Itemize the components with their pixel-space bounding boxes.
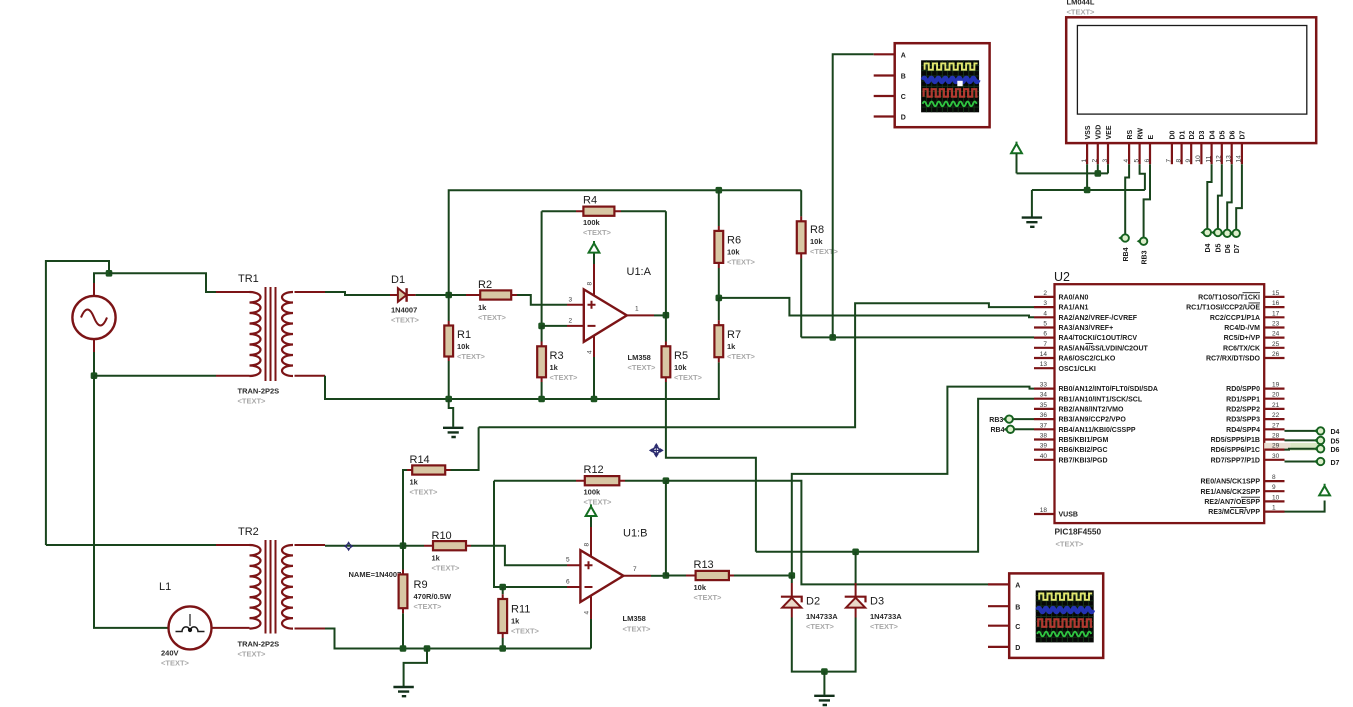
svg-text:TR1: TR1: [238, 273, 259, 285]
svg-text:D2: D2: [1189, 130, 1196, 139]
svg-text:10k: 10k: [694, 583, 707, 592]
wire: output node to scope2 A: [666, 481, 988, 585]
wire: R4 left feedback column to pin2: [541, 211, 543, 326]
svg-text:38: 38: [1040, 433, 1048, 440]
svg-text:RS: RS: [1127, 129, 1134, 139]
svg-text:34: 34: [1040, 392, 1048, 399]
svg-text:C: C: [901, 94, 906, 101]
svg-text:14: 14: [1236, 155, 1243, 163]
resistor R9 470R/0.5W: [399, 546, 452, 649]
wire: LCD D4 to terminal: [1207, 164, 1211, 229]
svg-text:7: 7: [633, 566, 637, 573]
node: junction AC-bottom: [91, 372, 98, 379]
svg-text:R14: R14: [410, 454, 430, 466]
svg-text:35: 35: [1040, 402, 1048, 409]
node: R6 top tee on rail: [716, 187, 723, 194]
svg-text:100k: 100k: [583, 218, 601, 227]
svg-text:RW: RW: [1137, 128, 1144, 140]
origin marker on wire: [344, 541, 354, 551]
svg-text:<TEXT>: <TEXT>: [161, 659, 190, 668]
wire: RB0 net from R13/D2 node: [792, 387, 1034, 576]
wire: divider mid to PIC RA2: [719, 298, 1034, 317]
svg-text:RA0/AN0: RA0/AN0: [1059, 295, 1089, 302]
svg-text:D3: D3: [870, 596, 884, 608]
wire: R5 bottom run to RB1 net: [666, 382, 756, 552]
svg-text:<TEXT>: <TEXT>: [457, 352, 486, 361]
svg-text:RD0/SPP0: RD0/SPP0: [1226, 386, 1260, 393]
svg-text:D5: D5: [1216, 243, 1223, 252]
svg-text:26: 26: [1272, 351, 1280, 358]
wire: TR2 secondary top to node: [325, 545, 403, 547]
svg-text:19: 19: [1272, 382, 1280, 389]
svg-text:2: 2: [1043, 290, 1047, 297]
svg-text:R5: R5: [674, 350, 688, 362]
svg-text:11: 11: [1205, 155, 1212, 162]
ground under zeners: [814, 672, 834, 705]
svg-text:RD1/SPP1: RD1/SPP1: [1226, 396, 1260, 403]
ground under section B: [393, 649, 427, 697]
svg-text:RE1/AN6/CK2SPP: RE1/AN6/CK2SPP: [1200, 489, 1260, 496]
svg-text:R8: R8: [810, 224, 824, 236]
svg-text:D6: D6: [1225, 244, 1232, 253]
svg-text:10k: 10k: [457, 342, 470, 351]
wire: LCD E to terminal: [1144, 164, 1150, 237]
node: feedback/R3 junction: [538, 323, 545, 330]
svg-text:1k: 1k: [727, 342, 736, 351]
wire: RA1 long wire to lower section: [479, 303, 1034, 427]
svg-text:TRAN-2P2S: TRAN-2P2S: [238, 387, 280, 396]
svg-text:D: D: [901, 115, 906, 122]
svg-text:RC6/TX/CK: RC6/TX/CK: [1223, 345, 1260, 352]
wire: lamp to TR2 primary bottom: [212, 627, 250, 629]
svg-text:RB6/KBI2/PGC: RB6/KBI2/PGC: [1059, 447, 1108, 454]
svg-text:RC1/T1OSI/CCP2/UOE: RC1/T1OSI/CCP2/UOE: [1186, 305, 1260, 312]
svg-text:R4: R4: [583, 195, 597, 207]
svg-text:25: 25: [1272, 341, 1280, 348]
svg-text:<TEXT>: <TEXT>: [583, 228, 612, 237]
power arrow above U1:B: [586, 504, 597, 527]
wire: LCD RS to terminal: [1125, 164, 1129, 234]
svg-text:A: A: [1015, 583, 1020, 590]
wire: U1:A output to node: [654, 314, 666, 316]
svg-text:TR2: TR2: [238, 526, 259, 538]
wire: left rail to TR2 primary top: [46, 544, 216, 546]
wire: LCD ground rail: [1032, 189, 1145, 191]
wire: LCD D6 to terminal: [1227, 164, 1232, 229]
svg-text:D: D: [1015, 645, 1020, 652]
svg-text:D3: D3: [1199, 130, 1206, 139]
power arrow at MCLR: [1319, 484, 1330, 496]
node: zener ground junction: [821, 668, 828, 675]
wire: R12 left feedback to pin6: [494, 481, 567, 587]
svg-text:4: 4: [1123, 159, 1130, 163]
ground under section A: [443, 399, 463, 437]
terminal D7 at PIC: [1314, 458, 1340, 467]
svg-text:RA6/OSC2/CLKO: RA6/OSC2/CLKO: [1059, 356, 1116, 363]
svg-text:10k: 10k: [727, 248, 740, 257]
svg-text:<TEXT>: <TEXT>: [410, 488, 439, 497]
svg-text:<TEXT>: <TEXT>: [623, 625, 652, 634]
svg-text:<TEXT>: <TEXT>: [414, 602, 443, 611]
oscilloscope 2: [988, 573, 1103, 658]
svg-text:40: 40: [1040, 453, 1048, 460]
svg-text:U1:A: U1:A: [627, 266, 652, 278]
svg-text:10: 10: [1272, 494, 1280, 501]
node: VDD on power rail: [1095, 170, 1102, 177]
svg-text:39: 39: [1040, 443, 1048, 450]
svg-text:RB3: RB3: [1141, 250, 1148, 264]
svg-text:RC7/RX/DT/SDO: RC7/RX/DT/SDO: [1206, 356, 1261, 363]
node: pin4 on rail: [591, 396, 598, 403]
svg-text:4: 4: [583, 611, 590, 615]
transformer TR2: [216, 526, 325, 659]
svg-text:RD3/SPP3: RD3/SPP3: [1226, 417, 1260, 424]
ground for LCD: [1022, 190, 1042, 227]
svg-text:<TEXT>: <TEXT>: [432, 564, 461, 573]
svg-text:D4: D4: [1209, 130, 1216, 139]
wire: node to op-amp pin2: [542, 325, 567, 327]
svg-text:LM358: LM358: [623, 614, 646, 623]
svg-text:RC2/CCP1/P1A: RC2/CCP1/P1A: [1210, 315, 1260, 322]
svg-text:5: 5: [1043, 321, 1047, 328]
oscilloscope 1: [874, 43, 990, 127]
op-amp U1:B LM358: [566, 527, 651, 634]
resistor R5 10k: [662, 315, 703, 382]
LCD display LM044L: [1066, 0, 1316, 164]
wire: AC source bottom to junction: [93, 352, 95, 376]
zener D3 1N4733A: [845, 552, 903, 631]
wire: junction to TR1 primary bottom: [94, 375, 216, 377]
wire: MCLR pull-up: [1285, 501, 1325, 512]
svg-text:R2: R2: [478, 279, 492, 291]
terminal RB4 at PIC: [990, 426, 1034, 435]
svg-text:D4: D4: [1331, 429, 1340, 436]
node: D1/R1/R2 junction: [445, 292, 452, 299]
svg-text:14: 14: [1040, 351, 1048, 358]
svg-text:R7: R7: [727, 329, 741, 341]
node: TR2/R14/R10/R9 junction: [400, 542, 407, 549]
resistor R1 10k: [444, 295, 485, 399]
svg-text:RB7/KBI3/PGD: RB7/KBI3/PGD: [1059, 457, 1108, 464]
svg-text:4: 4: [1043, 310, 1047, 317]
svg-text:8: 8: [1175, 159, 1182, 163]
svg-text:37: 37: [1040, 422, 1048, 429]
svg-text:RD4/SPP4: RD4/SPP4: [1226, 427, 1260, 434]
power arrow LCD VDD: [1011, 142, 1022, 174]
svg-text:D0: D0: [1170, 130, 1177, 139]
svg-text:27: 27: [1272, 422, 1280, 429]
svg-text:<TEXT>: <TEXT>: [584, 498, 613, 507]
svg-text:18: 18: [1040, 507, 1048, 514]
svg-text:D7: D7: [1331, 460, 1340, 467]
svg-text:17: 17: [1272, 310, 1280, 317]
svg-text:R1: R1: [457, 329, 471, 341]
terminal RB3 at PIC: [989, 415, 1034, 424]
svg-text:29: 29: [1272, 443, 1280, 450]
node: output/R4/R5 junction: [663, 312, 670, 319]
resistor R6 10k: [714, 190, 755, 298]
svg-text:D7: D7: [1240, 130, 1247, 139]
terminal D7 (LCD): [1229, 230, 1241, 254]
svg-text:<TEXT>: <TEXT>: [694, 593, 723, 602]
svg-text:23: 23: [1272, 321, 1280, 328]
node: ground stem on rail: [424, 645, 431, 652]
AC source V1: [72, 283, 115, 352]
svg-text:VEE: VEE: [1106, 125, 1113, 139]
svg-text:RB4: RB4: [1123, 247, 1130, 261]
svg-text:6: 6: [566, 579, 570, 586]
svg-text:<TEXT>: <TEXT>: [674, 373, 703, 382]
svg-text:30: 30: [1272, 453, 1280, 460]
svg-text:RB4/AN11/KBI0/CSSPP: RB4/AN11/KBI0/CSSPP: [1059, 427, 1136, 434]
svg-text:<TEXT>: <TEXT>: [870, 622, 899, 631]
svg-text:RA4/T0CKI/C1OUT/RCV: RA4/T0CKI/C1OUT/RCV: [1059, 335, 1138, 342]
svg-text:<TEXT>: <TEXT>: [727, 352, 756, 361]
svg-text:LM358: LM358: [628, 353, 651, 362]
svg-text:RC4/D-/VM: RC4/D-/VM: [1224, 325, 1260, 332]
svg-text:6: 6: [1043, 331, 1047, 338]
svg-text:NAME=1N4007: NAME=1N4007: [349, 570, 402, 579]
svg-text:D4: D4: [1205, 243, 1212, 252]
svg-text:VUSB: VUSB: [1059, 512, 1078, 519]
wire: LCD RW to ground rail: [1140, 164, 1145, 190]
svg-text:<TEXT>: <TEXT>: [511, 627, 540, 636]
svg-text:RB2/AN8/INT2/VMO: RB2/AN8/INT2/VMO: [1059, 407, 1125, 414]
svg-text:D1: D1: [391, 274, 405, 286]
svg-text:RE2/AN7/OESPP: RE2/AN7/OESPP: [1204, 499, 1260, 506]
svg-text:B: B: [901, 74, 906, 81]
svg-text:22: 22: [1272, 412, 1280, 419]
wire: scope1 input A: [833, 54, 874, 337]
wire: RD6 to terminal: [1285, 448, 1317, 451]
svg-text:7: 7: [1043, 341, 1047, 348]
node: R9 bottom on rail: [400, 645, 407, 652]
terminal D6 (LCD): [1220, 230, 1232, 254]
resistor R2 1k: [449, 279, 567, 322]
diode D1 1N4007: [390, 274, 420, 325]
svg-text:12: 12: [1216, 155, 1223, 163]
wire: AC bottom rail down to lamp: [94, 376, 168, 628]
svg-text:8: 8: [1272, 474, 1276, 481]
power arrow above U1:A: [589, 241, 600, 264]
svg-text:D2: D2: [806, 596, 820, 608]
svg-text:U2: U2: [1054, 270, 1070, 284]
svg-text:1N4733A: 1N4733A: [806, 612, 838, 621]
svg-text:<TEXT>: <TEXT>: [806, 622, 835, 631]
svg-text:2: 2: [569, 318, 573, 325]
svg-text:RD7/SPP7/P1D: RD7/SPP7/P1D: [1211, 457, 1260, 464]
svg-text:36: 36: [1040, 412, 1048, 419]
svg-text:21: 21: [1272, 402, 1280, 409]
svg-text:9: 9: [1185, 159, 1192, 163]
terminal RB3 (LCD E): [1137, 238, 1149, 265]
svg-text:13: 13: [1040, 361, 1048, 368]
terminal D5 at PIC: [1314, 437, 1340, 446]
svg-text:L1: L1: [159, 581, 171, 593]
wire: junction to TR1 primary top: [109, 273, 216, 292]
resistor R14 1k: [407, 427, 479, 496]
wire: R8 bottom to PIC RA4 with scope tap: [801, 336, 1034, 338]
wire: RD5 to terminal: [1285, 439, 1317, 441]
svg-text:RD2/SPP2: RD2/SPP2: [1226, 407, 1260, 414]
wire: RB1 net horizontal: [756, 399, 1034, 552]
resistor R10 1k: [403, 530, 567, 573]
svg-text:<TEXT>: <TEXT>: [628, 363, 657, 372]
svg-text:10k: 10k: [810, 237, 823, 246]
svg-text:RB4: RB4: [990, 427, 1004, 434]
svg-text:240V: 240V: [161, 649, 179, 658]
svg-text:1: 1: [1272, 505, 1276, 512]
svg-text:20: 20: [1272, 392, 1280, 399]
zener D2 1N4733A: [781, 576, 838, 632]
svg-text:<TEXT>: <TEXT>: [238, 397, 267, 406]
wire: mains left rail top: [46, 261, 109, 545]
svg-text:RA1/AN1: RA1/AN1: [1059, 305, 1089, 312]
svg-text:1k: 1k: [432, 554, 441, 563]
node: D3 tap on RB1 net: [852, 549, 859, 556]
wire: U1:B pin4 to bottom rail: [590, 619, 592, 649]
svg-text:RA5/AN4/SS/LVDIN/C2OUT: RA5/AN4/SS/LVDIN/C2OUT: [1059, 345, 1149, 352]
resistor R3 1k: [537, 326, 578, 399]
svg-text:B: B: [1015, 604, 1020, 611]
wire: junction up to R14: [403, 470, 407, 546]
svg-text:<TEXT>: <TEXT>: [478, 313, 507, 322]
resistor R12 100k: [494, 464, 666, 507]
svg-text:RB0/AN12/INT0/FLT0/SDI/SDA: RB0/AN12/INT0/FLT0/SDI/SDA: [1059, 386, 1158, 393]
wire: LCD VEE pin down: [1107, 164, 1109, 173]
resistor R13 10k: [666, 559, 792, 602]
node: R12 right junction: [663, 477, 670, 484]
svg-text:5: 5: [566, 557, 570, 564]
op-amp U1:A LM358: [567, 264, 656, 372]
node: VSS on ground rail: [1084, 187, 1091, 194]
svg-text:2: 2: [1092, 159, 1099, 163]
svg-text:A: A: [901, 53, 906, 60]
svg-text:3: 3: [1102, 159, 1109, 163]
svg-text:R10: R10: [432, 530, 452, 542]
svg-text:8: 8: [586, 282, 593, 286]
node: junction AC-top: [106, 270, 113, 277]
wire: LCD D5 to terminal: [1218, 164, 1222, 229]
svg-text:TRAN-2P2S: TRAN-2P2S: [238, 640, 280, 649]
svg-text:<TEXT>: <TEXT>: [238, 650, 267, 659]
node: feedback/R11 junction: [499, 584, 506, 591]
terminal D5 (LCD): [1211, 229, 1223, 253]
svg-text:RB1/AN10/INT1/SCK/SCL: RB1/AN10/INT1/SCK/SCL: [1059, 396, 1143, 403]
resistor R4 100k: [542, 195, 666, 238]
svg-text:R9: R9: [414, 579, 428, 591]
wire: zener ground rail: [792, 618, 856, 672]
svg-text:RD5/SPP5/P1B: RD5/SPP5/P1B: [1211, 437, 1260, 444]
svg-text:VSS: VSS: [1085, 125, 1092, 139]
svg-text:D5: D5: [1331, 439, 1340, 446]
svg-text:R3: R3: [550, 350, 564, 362]
svg-text:1k: 1k: [550, 363, 559, 372]
svg-text:R12: R12: [584, 464, 604, 476]
svg-text:R6: R6: [727, 235, 741, 247]
svg-text:RE0/AN5/CK1SPP: RE0/AN5/CK1SPP: [1200, 479, 1260, 486]
svg-text:10: 10: [1195, 155, 1202, 163]
wire: U1:B output to node: [651, 575, 666, 577]
svg-text:<TEXT>: <TEXT>: [1056, 540, 1085, 549]
resistor R11 1k: [498, 587, 539, 649]
svg-text:D5: D5: [1220, 130, 1227, 139]
svg-text:1N4733A: 1N4733A: [870, 612, 902, 621]
svg-text:33: 33: [1040, 382, 1048, 389]
wire: TR1 secondary top to D1: [325, 292, 390, 295]
svg-text:RA3/AN3/VREF+: RA3/AN3/VREF+: [1059, 325, 1114, 332]
svg-text:10k: 10k: [674, 363, 687, 372]
svg-text:1k: 1k: [478, 303, 487, 312]
svg-text:8: 8: [583, 543, 590, 547]
wire: RD4 to terminal: [1285, 430, 1317, 432]
svg-text:RC5/D+/VP: RC5/D+/VP: [1224, 335, 1261, 342]
svg-text:D1: D1: [1179, 130, 1186, 139]
svg-text:16: 16: [1272, 300, 1280, 307]
svg-text:1k: 1k: [410, 478, 419, 487]
wire: RD7 to terminal: [1285, 461, 1317, 463]
terminal RB4 (LCD RS): [1118, 234, 1130, 261]
svg-text:1N4007: 1N4007: [391, 306, 417, 315]
svg-text:13: 13: [1226, 155, 1233, 163]
svg-text:RB3: RB3: [989, 417, 1003, 424]
svg-text:100k: 100k: [584, 488, 602, 497]
svg-text:<TEXT>: <TEXT>: [810, 247, 839, 256]
svg-text:1: 1: [1081, 159, 1088, 163]
wire: LCD VSS pin to ground rail: [1086, 164, 1088, 190]
transformer TR1: [216, 273, 325, 406]
node: R3 bottom on rail: [538, 396, 545, 403]
svg-text:<TEXT>: <TEXT>: [1067, 8, 1096, 17]
svg-text:OSC1/CLKI: OSC1/CLKI: [1059, 366, 1096, 373]
terminal D6 at PIC: [1314, 445, 1340, 454]
svg-text:U1:B: U1:B: [623, 528, 647, 540]
wire: D1 cathode to node: [416, 294, 449, 296]
resistor R8 10k: [797, 190, 839, 337]
svg-text:24: 24: [1272, 331, 1280, 338]
svg-text:<TEXT>: <TEXT>: [391, 316, 420, 325]
svg-text:<TEXT>: <TEXT>: [727, 258, 756, 267]
svg-text:PIC18F4550: PIC18F4550: [1055, 527, 1102, 537]
terminal D4 at PIC: [1314, 427, 1340, 436]
svg-text:RB5/KBI1/PGM: RB5/KBI1/PGM: [1059, 437, 1109, 444]
wire: VDD power rail: [1017, 172, 1109, 174]
svg-text:D7: D7: [1234, 244, 1241, 253]
node: R1 bottom on rail: [445, 396, 452, 403]
svg-text:7: 7: [1166, 159, 1173, 163]
svg-text:RD6/SPP6/P1C: RD6/SPP6/P1C: [1211, 447, 1260, 454]
svg-text:D6: D6: [1331, 447, 1340, 454]
node: U1:B output junction: [663, 572, 670, 579]
svg-text:3: 3: [1043, 300, 1047, 307]
svg-text:RC0/T1OSO/T1CKI: RC0/T1OSO/T1CKI: [1198, 295, 1260, 302]
svg-text:E: E: [1148, 135, 1155, 140]
node: R6/R7 divider junction: [716, 295, 723, 302]
svg-text:D6: D6: [1230, 130, 1237, 139]
origin marker large: [649, 443, 664, 458]
wire: node up to top rail: [449, 190, 802, 295]
svg-text:28: 28: [1272, 433, 1280, 440]
svg-text:LM044L: LM044L: [1067, 0, 1095, 7]
svg-text:R11: R11: [511, 604, 530, 616]
svg-text:470R/0.5W: 470R/0.5W: [414, 592, 452, 601]
wire: output node up to R4: [665, 211, 667, 315]
svg-text:5: 5: [1133, 159, 1140, 163]
svg-text:4: 4: [586, 350, 593, 354]
wire: LCD D7 to terminal: [1236, 164, 1242, 229]
svg-text:15: 15: [1272, 290, 1280, 297]
node: R11 bottom on rail: [499, 645, 506, 652]
